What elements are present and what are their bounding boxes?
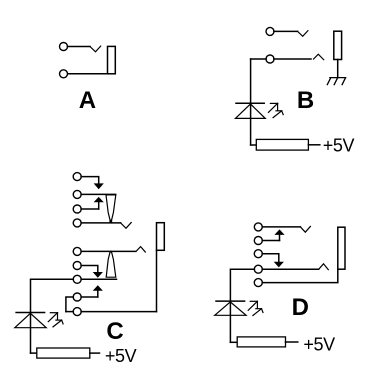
wire [90,352,100,354]
wire [274,30,298,32]
wire [31,279,74,312]
wire [262,240,279,242]
C switch arrow down 1 [94,183,104,189]
jack D terminal 3 [254,250,262,258]
jack C body [157,223,165,251]
jack A sleeve terminal [60,70,68,78]
wire [251,58,267,60]
LED C light arrows [48,313,63,327]
LED C [15,313,46,328]
wire [337,60,339,78]
jack B switch terminal [266,27,274,35]
LED D [215,301,246,315]
jack D body [338,227,345,269]
jack D terminal 2 [254,237,262,245]
jack C terminal T1 [73,173,81,181]
svg-text:B: B [297,87,314,114]
C switch arrow down 2 [93,272,103,278]
jack C terminal B3 [73,275,81,283]
wire [81,266,98,273]
wire [156,250,158,311]
jack C ring contact lower [136,247,145,252]
svg-text:A: A [79,87,96,114]
LED D light arrows [248,301,263,315]
wire [262,254,279,262]
svg-text:+5V: +5V [323,135,355,155]
wire [67,73,107,75]
jack B tip contact [314,54,324,60]
jack C terminal T4 [73,219,81,227]
wire [230,341,237,343]
jack B body [334,31,342,59]
jack C terminal B4 [73,293,81,301]
wire [81,311,156,313]
wire [81,208,99,210]
jack C tip contact upper [121,223,132,229]
jack C terminal B1 [73,247,81,255]
jack A body [108,46,116,73]
jack D tip contact [300,226,310,232]
jack D ring contact [319,264,329,270]
wire [274,58,311,60]
C tip spring contact upper [106,195,116,223]
wire [31,352,37,354]
C switch arrow up 2 [93,285,103,297]
wire [286,341,298,343]
wire [262,226,300,228]
svg-text:D: D [292,294,309,321]
wire [66,297,73,312]
C ring spring contact lower [106,251,116,277]
svg-text:C: C [106,318,123,345]
C switch arrow up 1 [94,197,104,209]
wire [30,313,32,354]
resistor D [237,337,285,347]
jack B isolated switch contact [298,31,308,37]
wire [262,268,318,270]
jack C terminal T2 [73,190,81,198]
wire [81,177,99,184]
wire [250,59,252,145]
wire [229,301,231,342]
jack A tip contact [90,46,101,52]
jack C terminal T3 [73,205,81,213]
D switch arrow down [274,262,284,268]
jack D terminal 5 [254,279,262,287]
wire [230,269,254,301]
LED B light arrows [268,103,283,117]
svg-text:+5V: +5V [105,346,137,366]
svg-text:+5V: +5V [303,334,335,354]
jack D terminal 4 [254,265,262,273]
jack B tip terminal [266,55,274,63]
jack C terminal B5 [73,308,81,316]
chassis ground [327,78,345,85]
wire [308,144,319,146]
jack D terminal 1 [254,223,262,231]
wire [262,269,338,282]
resistor B [256,139,308,150]
jack A tip terminal [60,43,68,51]
wire [67,46,90,48]
D switch arrow up [274,229,284,240]
wire [81,296,98,298]
resistor C [37,348,90,358]
LED B [235,103,265,118]
wire [81,222,121,224]
wire [251,144,257,146]
wire [81,250,136,252]
wire [81,193,116,195]
wire [66,311,73,313]
jack C terminal B2 [73,262,81,270]
wire [81,278,116,280]
